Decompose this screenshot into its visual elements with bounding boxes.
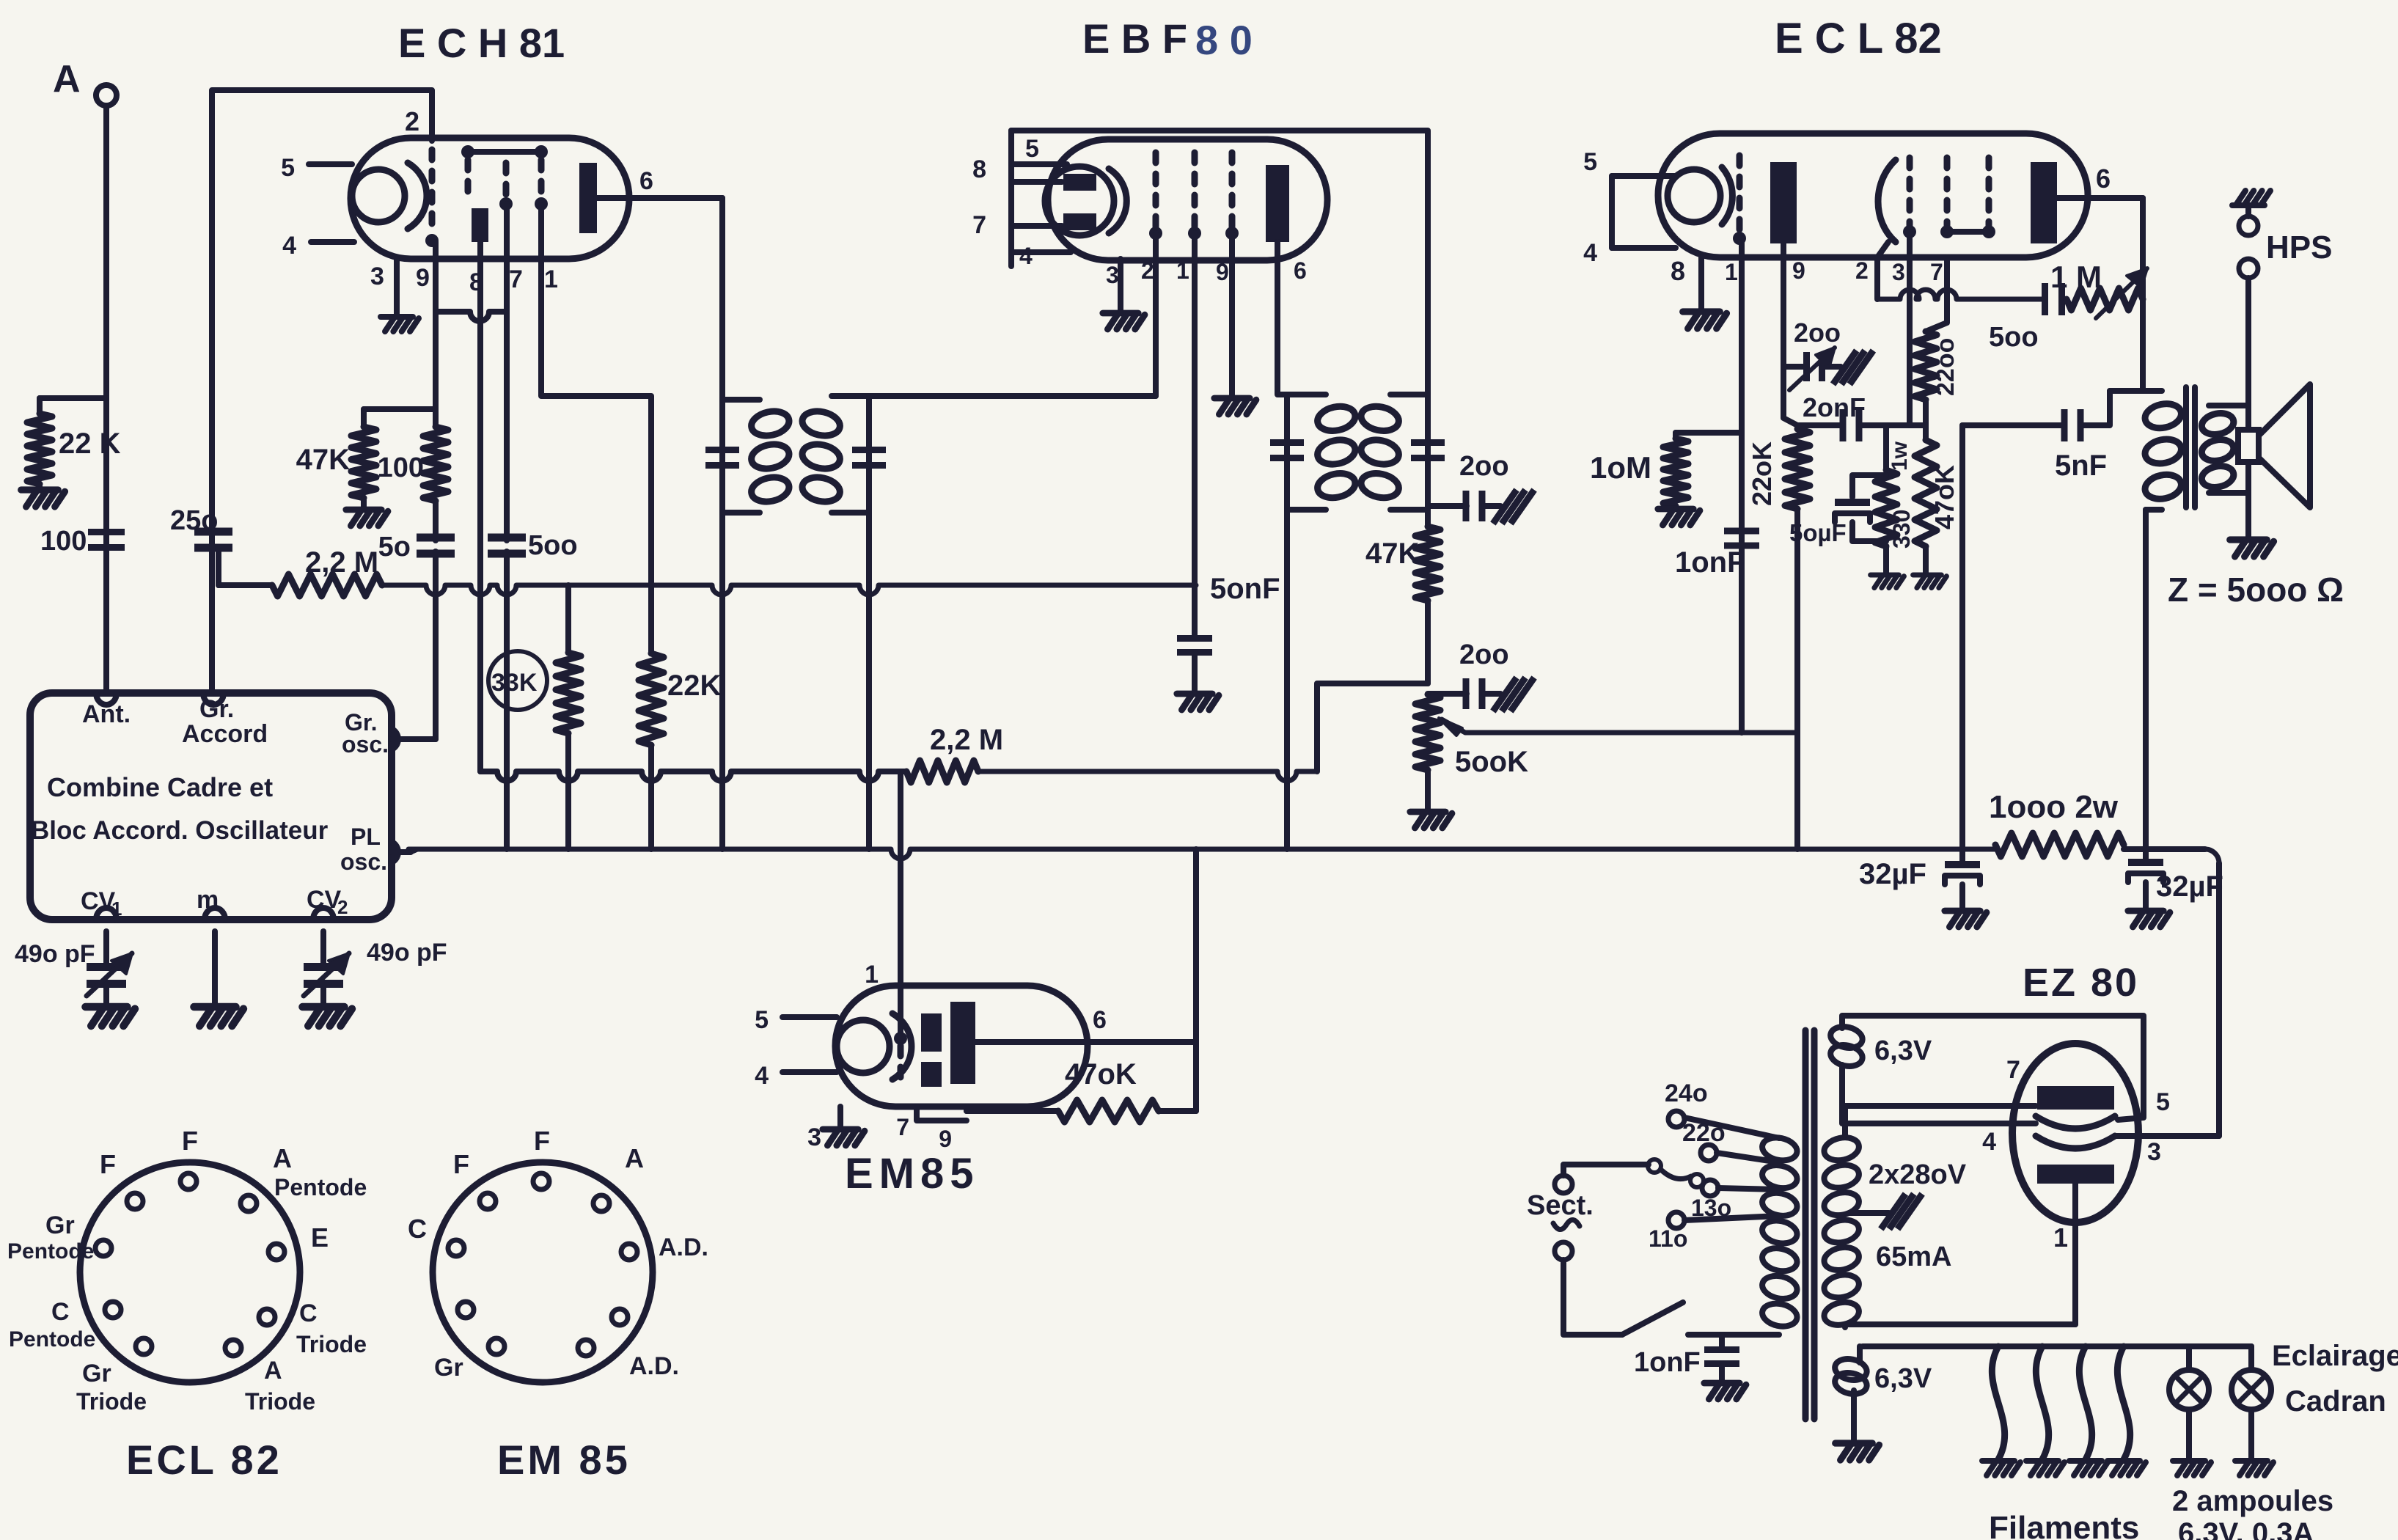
svg-text:33K: 33K [491, 669, 538, 697]
svg-text:6: 6 [1294, 257, 1307, 284]
jog pin9 to pin7 [436, 312, 507, 321]
svg-text:32µF: 32µF [2156, 870, 2223, 903]
wire AVC long bus [480, 771, 906, 781]
svg-text:4: 4 [282, 232, 296, 260]
filament bus [1863, 1343, 2251, 1349]
svg-text:9: 9 [1792, 257, 1805, 284]
svg-text:Gr: Gr [82, 1360, 111, 1387]
EM85 target wire [975, 1039, 1196, 1045]
EBF80 diode circle [1045, 166, 1114, 235]
svg-text:22oK: 22oK [1747, 441, 1777, 506]
ECL82 pentode grid2 dashed [1944, 158, 1951, 226]
capacitor 500 coupling [2042, 283, 2048, 315]
capacitor 200 upper [1428, 503, 1467, 509]
capacitor 100 antenna [88, 529, 125, 535]
switch Sect squiggle [1553, 1220, 1580, 1229]
ECL82 triode cathode arc [1722, 167, 1732, 224]
svg-text:EM85: EM85 [845, 1150, 980, 1198]
svg-text:25o: 25o [170, 505, 218, 536]
ECL82 pin3 wire [1907, 232, 1913, 425]
EM85 pin4 stub [782, 1069, 837, 1075]
svg-text:Accord: Accord [182, 720, 268, 748]
ground HPS [2232, 191, 2270, 205]
EBF80 pin2 wire [1153, 233, 1159, 396]
ECL82 pentode grid1 dashed [1907, 158, 1913, 226]
ground 1onF mains [1704, 1383, 1746, 1399]
ECL82 pin4 stub [1612, 245, 1676, 251]
svg-text:47oK: 47oK [1929, 465, 1959, 529]
wire 22K branch [40, 395, 106, 401]
wire HT top to EZ80 plate [1845, 1106, 2036, 1135]
svg-text:E: E [311, 1222, 329, 1253]
potentiometer 500K [1415, 694, 1440, 770]
wire HT bottom to EZ80 pin1 [1845, 1324, 2075, 1327]
capacitor 5nF [1962, 422, 2062, 428]
EM85 pin7 wire [917, 1107, 967, 1121]
resistor 220K [1785, 429, 1810, 509]
svg-text:5ooK: 5ooK [1455, 746, 1528, 778]
terminal Gr Accord bump [203, 693, 224, 705]
svg-text:7: 7 [509, 265, 523, 293]
svg-text:5oo: 5oo [1989, 322, 2039, 353]
svg-text:5onF: 5onF [1210, 573, 1280, 605]
svg-text:C: C [299, 1299, 318, 1327]
svg-text:Triode: Triode [245, 1388, 315, 1415]
resistor 330 [1883, 425, 1889, 470]
capacitor 32uF first [1959, 849, 1965, 861]
potentiometer wiper arrow [1442, 719, 1796, 733]
svg-text:22K: 22K [667, 670, 721, 702]
svg-text:Pentode: Pentode [7, 1239, 94, 1264]
svg-text:47oK: 47oK [1065, 1058, 1137, 1090]
ground 47K [361, 498, 367, 508]
ground speaker [2230, 540, 2274, 557]
tube ECL82 envelope [1658, 133, 2088, 257]
wire top EBF80 to IF2 [1011, 131, 1428, 395]
33K circled label [488, 651, 547, 710]
terminal HPS upper [2239, 216, 2258, 235]
wire EZ80 cathode to B+ [2116, 1133, 2219, 1139]
svg-text:2: 2 [1855, 257, 1869, 284]
resistor 2,2M first [272, 574, 382, 596]
HT center tap [1849, 1210, 1889, 1216]
EM85 cathode circle [837, 1020, 890, 1073]
svg-text:8: 8 [972, 155, 986, 183]
EZ80 plate bar top [2037, 1086, 2114, 1110]
ECH81 grid2 dashed [465, 160, 472, 202]
ECH81 cathode arc [408, 163, 427, 229]
capacitor 200 lower [1428, 691, 1467, 697]
ECL82 pin1 wire [1739, 238, 1745, 733]
svg-text:65mA: 65mA [1876, 1242, 1952, 1272]
svg-text:6: 6 [639, 167, 653, 195]
terminal m bump [205, 908, 225, 920]
EBF80 pin4 stub [1011, 249, 1071, 255]
svg-text:F: F [534, 1126, 550, 1156]
svg-text:A.D.: A.D. [629, 1352, 679, 1380]
ground 22K [37, 484, 43, 490]
ECH81 plate wire to IF1 [596, 195, 722, 201]
svg-text:1onF: 1onF [1675, 546, 1745, 579]
svg-text:330: 330 [1888, 510, 1915, 549]
IF1 secondary coil [832, 393, 869, 399]
svg-text:6: 6 [2096, 164, 2111, 194]
rectifier EZ80 envelope [2012, 1044, 2138, 1222]
EM85 pin9 wire [964, 1107, 969, 1111]
resistor 22K second [639, 653, 664, 745]
svg-text:Gr.: Gr. [199, 695, 234, 723]
svg-text:2onF: 2onF [1803, 392, 1866, 422]
ECH81 grid3 dashed [503, 163, 510, 198]
svg-text:5oo: 5oo [528, 530, 578, 561]
svg-text:2: 2 [337, 896, 348, 918]
lamp 1 [2186, 1346, 2192, 1370]
svg-text:4: 4 [1019, 243, 1033, 269]
wire mains bottom [1563, 1260, 1622, 1335]
svg-text:Combine Cadre et: Combine Cadre et [47, 772, 273, 802]
ECH81 grid1 dashed [429, 150, 436, 233]
EM85 grid wire [898, 771, 903, 1038]
resistor 47K IF2 [1415, 527, 1440, 601]
IF2 capacitor left [1270, 439, 1304, 446]
tube ECH81 envelope [351, 138, 629, 259]
svg-text:PL: PL [351, 824, 381, 850]
tap 130 terminal [1702, 1180, 1718, 1196]
terminal Ant bump [96, 693, 117, 705]
svg-text:5: 5 [2156, 1088, 2170, 1116]
svg-text:C: C [408, 1214, 427, 1244]
ground 10M [1658, 509, 1700, 525]
svg-text:Bloc Accord. Oscillateur: Bloc Accord. Oscillateur [31, 816, 329, 845]
resistor 22K antenna [37, 398, 43, 414]
EBF80 pin8 stub [1011, 179, 1062, 185]
svg-text:C: C [51, 1298, 70, 1326]
svg-text:osc.: osc. [342, 731, 389, 758]
svg-text:Gr: Gr [434, 1354, 463, 1382]
ECH81 pin3 wire [394, 259, 400, 315]
ECH81 pin4 stub [311, 239, 354, 245]
svg-text:5oµF: 5oµF [1789, 519, 1847, 546]
svg-text:9: 9 [416, 264, 430, 292]
socket diagram EM85 [433, 1162, 653, 1382]
ECH81 pin5 stub [309, 161, 352, 167]
speaker voice coil [2238, 430, 2259, 462]
EBF80 pin3 wire [1118, 259, 1123, 312]
EM85 pin3 wire [837, 1107, 843, 1128]
svg-text:9: 9 [1216, 259, 1229, 285]
svg-text:3: 3 [807, 1123, 821, 1151]
ground 330 [1883, 546, 1889, 573]
EM85 cathode arc [892, 1013, 912, 1079]
resistor 470K EM85 [1058, 1100, 1159, 1122]
wire pentode cathode feedback [1877, 290, 2045, 299]
wire plate down to output transformer [2140, 198, 2146, 391]
wire gr-accord loop [212, 90, 432, 692]
ECH81 pin7 wire [504, 204, 510, 539]
svg-text:Cadran: Cadran [2285, 1385, 2386, 1418]
IF1 secondary vertical [866, 396, 872, 849]
svg-text:1: 1 [2053, 1222, 2068, 1253]
resistor 2200 [1926, 257, 1947, 331]
EBF80 diode plate top [1063, 174, 1096, 191]
tap 110 terminal [1668, 1212, 1684, 1228]
resistor 47K [361, 409, 367, 427]
terminal Gr osc bump [392, 729, 398, 749]
block combine cadre [30, 693, 392, 920]
resistor 2,2M second [906, 760, 978, 782]
svg-text:7: 7 [972, 211, 986, 239]
svg-text:Triode: Triode [76, 1388, 147, 1415]
svg-text:2,2 M: 2,2 M [305, 546, 378, 579]
svg-text:5: 5 [281, 154, 295, 182]
terminal CV2 bump [313, 908, 334, 920]
tap 240 terminal [1668, 1111, 1684, 1127]
socket diagram ECL82 [80, 1162, 300, 1382]
capacitor 200 cathode [1783, 364, 1805, 370]
resistor 10M [1676, 430, 1742, 436]
svg-text:2 ampoules: 2 ampoules [2172, 1485, 2333, 1517]
ECL82 pin8 wire [1698, 257, 1704, 310]
power transformer HT secondary [1822, 1134, 1861, 1163]
svg-text:Ant.: Ant. [82, 700, 131, 728]
filament wire 3 [2079, 1346, 2091, 1459]
svg-text:1w: 1w [1888, 441, 1912, 471]
ground 6,3V winding [1836, 1443, 1880, 1460]
ECH81 pin9 wire osc grid [433, 242, 439, 309]
filament wire 1 [1992, 1346, 2004, 1459]
variable capacitor CV1 490pF [103, 931, 109, 965]
svg-text:5nF: 5nF [2055, 450, 2107, 482]
IF2 capacitor right [1411, 439, 1445, 446]
svg-text:HPS: HPS [2266, 230, 2332, 265]
svg-text:11o: 11o [1649, 1225, 1687, 1252]
svg-text:1oM: 1oM [1590, 450, 1651, 485]
svg-text:22o: 22o [1682, 1119, 1726, 1147]
svg-text:47K: 47K [1365, 538, 1419, 570]
capacitor 1onF [1724, 528, 1759, 535]
svg-text:6: 6 [1093, 1006, 1107, 1034]
svg-text:Triode: Triode [296, 1331, 367, 1357]
winding 6,3V filaments [1833, 1356, 1869, 1383]
ground 32uF second [2128, 911, 2170, 927]
ground 32uF first [1945, 911, 1987, 927]
EBF80 pin7 stub [1011, 223, 1062, 229]
svg-text:8 0: 8 0 [1195, 17, 1253, 63]
svg-text:F: F [182, 1126, 198, 1156]
EBF80 grid dashed 3 [1229, 153, 1236, 227]
ECH81 pin1 wire [541, 205, 651, 653]
ECL82 plate wire [2057, 195, 2143, 201]
svg-text:1ooo 2w: 1ooo 2w [1989, 789, 2119, 825]
EBF80 diode arc [1109, 169, 1126, 233]
wire IF1 to EBF80 grid [869, 393, 1156, 399]
resistor 1000 2W [1995, 833, 2124, 857]
IF1 primary vertical [719, 198, 725, 849]
EBF80 diode plate bottom [1063, 213, 1096, 230]
svg-text:2oo: 2oo [1459, 451, 1509, 482]
svg-text:F: F [453, 1149, 469, 1179]
svg-text:osc.: osc. [340, 848, 387, 875]
ground lamp 2 [2235, 1461, 2273, 1475]
EZ80 plate bar bottom [2037, 1165, 2114, 1184]
svg-text:1: 1 [865, 961, 879, 989]
ECH81 grid tie wire [468, 149, 541, 155]
ECL82 pin9 wire [1783, 243, 1797, 425]
EM85 target bar [950, 1002, 975, 1084]
svg-text:E C L 82: E C L 82 [1775, 15, 1942, 62]
ground lamp 1 [2173, 1461, 2211, 1475]
svg-text:A: A [625, 1143, 644, 1173]
IF2 secondary vertical [1425, 395, 1431, 527]
svg-text:7: 7 [896, 1114, 909, 1140]
svg-text:1: 1 [544, 265, 558, 293]
wire AVC bus right [978, 771, 1317, 781]
svg-text:5o: 5o [378, 532, 411, 562]
svg-text:2oo: 2oo [1459, 639, 1509, 670]
svg-text:E C H 81: E C H 81 [398, 20, 565, 66]
wire to Gr osc terminal [419, 736, 436, 742]
ECL82 grid tie [1947, 229, 1989, 235]
svg-text:6,3V. 0,3A: 6,3V. 0,3A [2178, 1517, 2314, 1540]
ground 470K [1923, 546, 1929, 573]
tube EM85 envelope [835, 986, 1088, 1107]
resistor 100 osc [433, 309, 439, 427]
svg-text:ECL 82: ECL 82 [126, 1437, 282, 1483]
ECH81 screen bar [472, 208, 488, 242]
lamp 2 [2248, 1346, 2254, 1370]
ground ECL82 pin8 [1683, 312, 1727, 329]
svg-text:Pentode: Pentode [9, 1327, 95, 1352]
capacitor 5o [433, 501, 439, 540]
svg-text:3: 3 [370, 263, 384, 290]
wire antenna down [103, 106, 109, 692]
ECH81 pin7 wire lower [504, 551, 510, 849]
ground CV2 [302, 1007, 352, 1026]
svg-text:3: 3 [1106, 262, 1119, 288]
EBF80 bracket [1008, 131, 1014, 266]
wire m terminal [212, 931, 218, 1005]
ground CV1 [85, 1007, 135, 1026]
ground 5onF [1177, 694, 1219, 710]
svg-text:1: 1 [1725, 259, 1738, 285]
output transformer secondary [2209, 403, 2248, 408]
ground m [194, 1007, 243, 1026]
capacitor 32uF second [2143, 849, 2149, 859]
ECH81 grid4 dashed [538, 160, 545, 198]
EM85 deflector bar lower [921, 1062, 942, 1087]
filament wire 4 [2117, 1346, 2130, 1459]
svg-text:3: 3 [2147, 1138, 2161, 1166]
ECH81 pin8 wire [477, 242, 483, 771]
IF2 primary vertical [1284, 395, 1290, 849]
svg-text:2: 2 [1141, 257, 1154, 284]
capacitor 1onF mains [1719, 1335, 1725, 1350]
svg-text:47K: 47K [296, 444, 350, 476]
capacitor 5onF AVC [1177, 635, 1212, 642]
svg-text:100: 100 [40, 526, 87, 557]
svg-text:7: 7 [2006, 1056, 2020, 1084]
svg-text:Z = 5ooo Ω: Z = 5ooo Ω [2168, 571, 2344, 609]
terminal PL osc bump [392, 842, 398, 862]
svg-text:A: A [264, 1357, 282, 1385]
IF1 capacitor right [852, 447, 886, 453]
EBF80 plate wire [1277, 242, 1287, 395]
wire EM85 to 470K [967, 1108, 1058, 1114]
wire heater loop to EZ80 [1842, 1016, 2144, 1120]
wire 5nF node down [1959, 425, 1965, 849]
winding 6,3V EZ80 heater [1828, 1024, 1864, 1051]
svg-text:32µF: 32µF [1859, 858, 1926, 890]
svg-text:2,2 M: 2,2 M [930, 724, 1003, 756]
svg-text:Gr: Gr [45, 1211, 75, 1239]
svg-text:100: 100 [378, 452, 424, 483]
ECL82 triode plate bar [1770, 162, 1797, 243]
potentiometer 1M [2067, 288, 2143, 310]
ECL82 pentode plate bar [2031, 162, 2057, 243]
svg-text:A.D.: A.D. [659, 1233, 708, 1261]
filament wire 2 [2036, 1346, 2048, 1459]
svg-text:EM 85: EM 85 [497, 1437, 631, 1483]
svg-text:4: 4 [1583, 239, 1597, 267]
svg-text:5: 5 [755, 1006, 769, 1034]
svg-text:A: A [53, 58, 81, 100]
capacitor 50uF [1852, 475, 1886, 497]
wire detector node [1319, 681, 1428, 686]
IF2 primary coil [1287, 392, 1326, 397]
svg-text:Filaments: Filaments [1989, 1510, 2139, 1540]
IF1 capacitor left [705, 447, 739, 453]
svg-text:A: A [273, 1143, 292, 1173]
svg-text:3: 3 [1892, 259, 1905, 285]
output transformer primary [2110, 388, 2162, 394]
capacitor 20nF [1797, 422, 1842, 428]
svg-text:2: 2 [405, 106, 419, 136]
ECH81 plate bar [579, 163, 597, 233]
svg-text:8: 8 [1671, 256, 1685, 286]
svg-text:22oo: 22oo [1932, 338, 1959, 396]
power transformer primary coil [1760, 1134, 1799, 1163]
svg-text:6,3V: 6,3V [1874, 1035, 1932, 1066]
ECH81 cathode circle [352, 169, 405, 222]
ECL82 pentode cathode arc [1878, 160, 1896, 242]
svg-text:4: 4 [1982, 1128, 1996, 1156]
svg-text:24o: 24o [1665, 1079, 1708, 1107]
svg-text:Eclairage: Eclairage [2272, 1340, 2398, 1372]
svg-text:2x28oV: 2x28oV [1869, 1159, 1967, 1190]
EM85 pin5 stub [782, 1014, 837, 1020]
ground EBF80 pin9 [1214, 398, 1256, 414]
svg-text:EZ 80: EZ 80 [2023, 961, 2139, 1005]
svg-text:1: 1 [1176, 257, 1189, 284]
ECL82 pentode grid3 dashed [1986, 158, 1992, 226]
EZ80 cathode arcs [2036, 1116, 2115, 1129]
tap 220 terminal [1701, 1145, 1717, 1161]
ground EM85 pin3 [823, 1129, 865, 1145]
wire HPS down [2245, 278, 2251, 406]
IF1 primary coil [722, 397, 760, 403]
variable capacitor CV2 490pF [320, 931, 326, 965]
output transformer core [2183, 387, 2189, 507]
svg-text:1onF: 1onF [1634, 1347, 1701, 1378]
ECL82 bracket [1609, 176, 1615, 248]
wire B+ bus [408, 849, 1995, 859]
resistor 470K [1923, 425, 1929, 440]
wire 47K top tie [364, 406, 436, 412]
svg-text:5: 5 [1583, 148, 1597, 176]
capacitor 250 [194, 528, 232, 536]
resistor 33K [565, 585, 571, 653]
ground 500K [1410, 812, 1452, 828]
